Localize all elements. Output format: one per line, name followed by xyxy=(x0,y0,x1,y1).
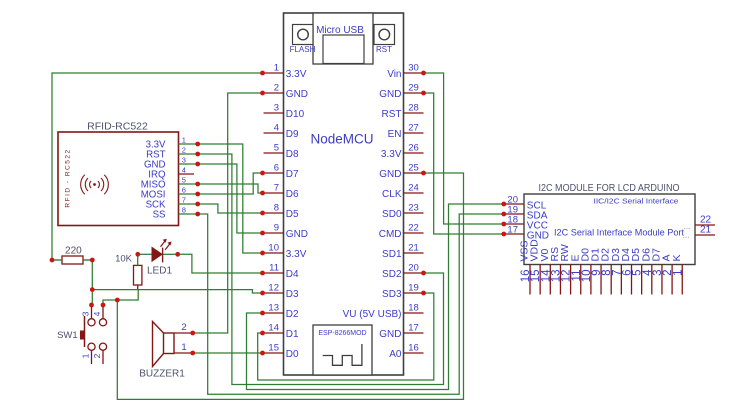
svg-text:K: K xyxy=(671,254,683,261)
NodeMCU pin 19 SD3 xyxy=(404,292,424,294)
svg-text:...: ... xyxy=(683,231,690,240)
svg-text:16: 16 xyxy=(408,343,419,354)
svg-text:VU (5V USB): VU (5V USB) xyxy=(343,309,402,320)
svg-text:3: 3 xyxy=(274,103,279,114)
svg-text:1: 1 xyxy=(274,63,279,74)
node pin11 D4 xyxy=(260,271,265,276)
wire MOSI to D7 xyxy=(198,173,263,194)
svg-text:30: 30 xyxy=(408,63,419,74)
node buzzer pin2 xyxy=(190,331,195,336)
node RFID SCK xyxy=(195,202,200,207)
node LED cathode xyxy=(175,252,180,257)
svg-text:3.3V: 3.3V xyxy=(286,69,307,80)
I2C module pin 21 xyxy=(695,234,715,236)
I2C module pin 10 D0 xyxy=(590,265,592,295)
node pin19 SD3 xyxy=(421,291,426,296)
node pin2 GND xyxy=(260,91,265,96)
svg-text:1: 1 xyxy=(181,342,186,353)
svg-text:5: 5 xyxy=(274,143,279,154)
I2C module pin 14 V0 xyxy=(549,265,551,295)
wire RFID GND to pin9 xyxy=(198,164,263,233)
NodeMCU pin 26 3.3V xyxy=(404,152,424,154)
svg-text:SW1: SW1 xyxy=(57,330,78,341)
svg-text:4: 4 xyxy=(274,123,279,134)
svg-text:D10: D10 xyxy=(286,109,305,120)
RST button xyxy=(374,25,395,45)
svg-text:Vin: Vin xyxy=(387,69,401,80)
node pin30 Vin xyxy=(421,71,426,76)
svg-text:D6: D6 xyxy=(286,189,299,200)
RFID-RC522 antenna icon xyxy=(93,183,96,186)
svg-text:8: 8 xyxy=(274,203,279,214)
svg-text:D9: D9 xyxy=(286,129,299,140)
svg-text:7: 7 xyxy=(182,196,186,205)
svg-text:6: 6 xyxy=(182,186,186,195)
svg-text:LED1: LED1 xyxy=(147,266,172,277)
svg-text:D8: D8 xyxy=(286,149,299,160)
svg-text:15: 15 xyxy=(268,343,279,354)
RFID-RC522 pin 5 MISO xyxy=(179,183,198,185)
wire GND pin2 to buzzer pin2 xyxy=(193,93,263,333)
node RFID RST xyxy=(195,152,200,157)
svg-text:SS: SS xyxy=(153,209,166,220)
node LED anode xyxy=(135,252,140,257)
I2C module pin 16 VSS xyxy=(529,265,531,295)
NodeMCU pin 11 D4 xyxy=(264,272,284,274)
node RFID MOSI xyxy=(195,192,200,197)
I2C module pin 15 VDD xyxy=(539,265,541,295)
svg-text:3.3V: 3.3V xyxy=(381,149,402,160)
I2C module pin 5 D5 xyxy=(641,265,643,295)
wire 220 to SW1 pin3 xyxy=(91,260,93,305)
svg-text:A0: A0 xyxy=(389,349,402,360)
svg-text:7: 7 xyxy=(274,183,279,194)
NodeMCU pin 10 3.3V xyxy=(264,252,284,254)
I2C module pin 19 SDA xyxy=(504,213,524,215)
NodeMCU pin 13 D2 xyxy=(264,312,284,314)
node pin13 D2 xyxy=(260,311,265,316)
svg-text:D4: D4 xyxy=(286,269,299,280)
svg-text:IIC/I2C Serial Interface: IIC/I2C Serial Interface xyxy=(594,197,679,206)
svg-text:10K: 10K xyxy=(115,254,133,265)
svg-text:CMD: CMD xyxy=(379,229,402,240)
svg-text:D7: D7 xyxy=(286,169,299,180)
svg-text:RST: RST xyxy=(376,45,392,54)
NodeMCU pin 27 EN xyxy=(404,132,424,134)
node RFID MISO xyxy=(195,182,200,187)
NodeMCU pin 22 CMD xyxy=(404,232,424,234)
node I2C SDA xyxy=(501,212,506,217)
svg-text:NodeMCU: NodeMCU xyxy=(310,132,373,147)
node pin9 GND xyxy=(260,231,265,236)
node pin8 D5 xyxy=(260,211,265,216)
svg-text:1: 1 xyxy=(81,353,91,358)
I2C module pin 1 K xyxy=(681,265,683,295)
svg-text:GND: GND xyxy=(286,229,308,240)
svg-text:29: 29 xyxy=(408,83,419,94)
node pin29 GND xyxy=(421,91,426,96)
node pin14 D1 xyxy=(260,331,265,336)
svg-text:SD3: SD3 xyxy=(382,289,402,300)
Micro USB inner plug xyxy=(323,35,364,64)
svg-text:GND: GND xyxy=(286,89,308,100)
svg-text:23: 23 xyxy=(408,203,419,214)
svg-text:14: 14 xyxy=(268,323,279,334)
NodeMCU pin 12 D3 xyxy=(264,292,284,294)
svg-text:21: 21 xyxy=(408,243,419,254)
svg-text:5: 5 xyxy=(182,176,186,185)
svg-text:CLK: CLK xyxy=(382,189,402,200)
svg-text:ESP-8266MOD: ESP-8266MOD xyxy=(318,330,366,337)
RFID-RC522 pin 3 GND xyxy=(179,163,198,165)
svg-text:D5: D5 xyxy=(286,209,299,220)
NodeMCU pin 24 CLK xyxy=(404,192,424,194)
RFID-RC522 pin 7 SCK xyxy=(179,203,198,205)
wire LED to D4 xyxy=(178,254,263,273)
I2C module pin 4 D6 xyxy=(651,265,653,295)
NodeMCU body xyxy=(284,13,404,375)
svg-text:25: 25 xyxy=(408,163,419,174)
ESP-8266MOD module xyxy=(313,325,372,375)
svg-text:17: 17 xyxy=(408,323,419,334)
svg-text:2: 2 xyxy=(182,146,186,155)
I2C module pin 12 RW xyxy=(570,265,572,295)
NodeMCU pin 18 VU (5V USB) xyxy=(404,312,424,314)
NodeMCU pin 15 D0 xyxy=(264,352,284,354)
I2C module pin 7 D3 xyxy=(620,265,622,295)
I2C module pin 20 SCL xyxy=(504,203,524,205)
svg-text:2: 2 xyxy=(274,83,279,94)
NodeMCU pin 28 RST xyxy=(404,112,424,114)
svg-text:19: 19 xyxy=(408,283,419,294)
node R1 left xyxy=(50,258,55,263)
svg-text:6: 6 xyxy=(274,163,279,174)
RFID-RC522 body xyxy=(58,132,179,226)
node RFID 3.3V xyxy=(195,142,200,147)
svg-text:1: 1 xyxy=(182,136,186,145)
svg-text:3: 3 xyxy=(182,156,186,165)
wire SW1 pin4 to ground bus xyxy=(103,300,117,305)
svg-text:GND: GND xyxy=(379,329,401,340)
node SW1 pin3 xyxy=(89,303,94,308)
svg-text:D1: D1 xyxy=(286,329,299,340)
svg-text:FLASH: FLASH xyxy=(290,45,316,54)
node I2C VCC xyxy=(501,222,506,227)
svg-text:13: 13 xyxy=(268,303,279,314)
NodeMCU pin 25 GND xyxy=(404,172,424,174)
node R1 right xyxy=(90,258,95,263)
wire RFID RST to SD2 xyxy=(198,154,444,385)
node ground junction xyxy=(115,298,120,303)
wire GND25 ground bus xyxy=(117,173,463,399)
svg-text:SD1: SD1 xyxy=(382,249,402,260)
svg-text:21: 21 xyxy=(700,225,712,236)
wire D2 to SCL xyxy=(247,204,504,390)
I2C module pin 11 E xyxy=(580,265,582,295)
LED LED1 xyxy=(138,253,152,255)
NodeMCU pin 1 3.3V xyxy=(264,72,284,74)
NodeMCU pin 23 SD0 xyxy=(404,212,424,214)
wire pullup node to D3 xyxy=(92,290,262,293)
node RFID GND xyxy=(195,162,200,167)
svg-text:27: 27 xyxy=(408,123,419,134)
NodeMCU pin 29 GND xyxy=(404,92,424,94)
svg-text:18: 18 xyxy=(408,303,419,314)
NodeMCU pin 30 Vin xyxy=(404,72,424,74)
RFID-RC522 pin 8 SS xyxy=(179,213,198,215)
svg-text:BUZZER1: BUZZER1 xyxy=(139,369,185,380)
svg-text:3.3V: 3.3V xyxy=(286,249,307,260)
I2C module pin 17 GND xyxy=(504,233,524,235)
svg-text:RFID-RC522: RFID-RC522 xyxy=(87,121,148,133)
svg-text:RST: RST xyxy=(382,109,402,120)
RFID-RC522 pin 6 MOSI xyxy=(179,193,198,195)
switch SW1 xyxy=(88,319,95,326)
svg-text:8: 8 xyxy=(182,206,186,215)
svg-text:D3: D3 xyxy=(286,289,299,300)
I2C module pin 6 D4 xyxy=(631,265,633,295)
NodeMCU pin 3 D10 xyxy=(264,112,284,114)
node pin1 3.3V xyxy=(260,71,265,76)
svg-text:220: 220 xyxy=(65,246,82,257)
wire 3.3V pin1 to 220 xyxy=(52,73,263,260)
svg-text:...: ... xyxy=(684,222,691,231)
I2C module pin 13 RS xyxy=(559,265,561,295)
wire D1 to SD3 xyxy=(258,293,434,380)
NodeMCU pin 4 D9 xyxy=(264,132,284,134)
wire SS to SDA xyxy=(198,214,504,394)
node pullup junction xyxy=(90,287,95,292)
svg-text:GND: GND xyxy=(379,89,401,100)
svg-text:11: 11 xyxy=(269,263,279,274)
wire MISO to D6 xyxy=(198,184,263,193)
wire GND29 to I2C GND xyxy=(424,93,504,234)
svg-text:EN: EN xyxy=(388,129,402,140)
I2C module pin 18 VCC xyxy=(504,223,524,225)
NodeMCU pin 6 D7 xyxy=(264,172,284,174)
svg-text:3: 3 xyxy=(81,311,91,316)
svg-text:22: 22 xyxy=(408,223,419,234)
svg-text:2: 2 xyxy=(181,322,186,333)
svg-text:24: 24 xyxy=(408,183,419,194)
node pin15 D0 xyxy=(260,351,265,356)
svg-text:GND: GND xyxy=(379,169,401,180)
I2C module pin 3 D7 xyxy=(661,265,663,295)
I2C module body xyxy=(524,194,695,265)
svg-text:I2C MODULE FOR LCD ARDUINO: I2C MODULE FOR LCD ARDUINO xyxy=(539,182,680,194)
NodeMCU pin 21 SD1 xyxy=(404,252,424,254)
svg-text:SD2: SD2 xyxy=(382,269,402,280)
svg-text:RFID - RC522: RFID - RC522 xyxy=(65,148,72,207)
node buzzer pin1 xyxy=(190,351,195,356)
NodeMCU pin 20 SD2 xyxy=(404,272,424,274)
FLASH button xyxy=(293,25,314,45)
resistor 220 xyxy=(62,256,83,264)
wire buzzer pin1 to D0 xyxy=(193,352,263,354)
node pin10 3.3V xyxy=(260,251,265,256)
svg-text:9: 9 xyxy=(274,223,279,234)
RFID-RC522 pin 4 IRQ xyxy=(179,173,195,175)
node I2C GND xyxy=(501,232,506,237)
I2C module pin 8 D2 xyxy=(610,265,612,295)
NodeMCU pin 7 D6 xyxy=(264,192,284,194)
node pin7 D6 xyxy=(260,191,265,196)
svg-text:D2: D2 xyxy=(286,309,299,320)
svg-text:10: 10 xyxy=(268,243,279,254)
svg-text:28: 28 xyxy=(408,103,419,114)
resistor 10K xyxy=(134,265,142,285)
wire Vin to I2C VCC xyxy=(424,73,504,224)
NodeMCU pin 9 GND xyxy=(264,232,284,234)
svg-text:1: 1 xyxy=(672,270,684,276)
svg-text:D0: D0 xyxy=(286,349,299,360)
node SW1 pin4 xyxy=(101,303,106,308)
node pin6 D7 xyxy=(260,171,265,176)
svg-text:SD0: SD0 xyxy=(382,209,402,220)
wire RFID 3.3V to pin10 xyxy=(198,144,263,253)
svg-text:2: 2 xyxy=(92,353,102,358)
svg-text:I2C Serial Interface Module Po: I2C Serial Interface Module Port xyxy=(554,228,684,239)
NodeMCU pin 2 GND xyxy=(264,92,284,94)
svg-text:12: 12 xyxy=(268,283,279,294)
I2C module pin 22 xyxy=(695,224,715,226)
node I2C SCL xyxy=(501,202,506,207)
svg-text:17: 17 xyxy=(507,225,518,236)
wire SCK to D5 xyxy=(198,204,263,213)
Micro USB connector xyxy=(313,13,373,64)
svg-text:Micro USB: Micro USB xyxy=(316,25,364,36)
node RFID SS xyxy=(195,212,200,217)
I2C module pin 2 A xyxy=(671,265,673,295)
svg-text:4: 4 xyxy=(182,166,186,175)
NodeMCU pin 14 D1 xyxy=(264,332,284,334)
node pin25 GND xyxy=(421,171,426,176)
NodeMCU pin 17 GND xyxy=(404,332,424,334)
node pin12 D3 xyxy=(260,291,265,296)
NodeMCU pin 8 D5 xyxy=(264,212,284,214)
svg-text:26: 26 xyxy=(408,143,419,154)
RFID-RC522 pin 1 3.3V xyxy=(179,143,198,145)
node pin20 SD2 xyxy=(421,271,426,276)
NodeMCU pin 16 A0 xyxy=(404,352,424,354)
buzzer BUZZER1 xyxy=(153,322,164,367)
I2C module pin 9 D1 xyxy=(600,265,602,295)
svg-text:4: 4 xyxy=(92,311,102,316)
svg-text:20: 20 xyxy=(408,263,419,274)
NodeMCU pin 5 D8 xyxy=(264,152,284,154)
RFID-RC522 pin 2 RST xyxy=(179,153,198,155)
